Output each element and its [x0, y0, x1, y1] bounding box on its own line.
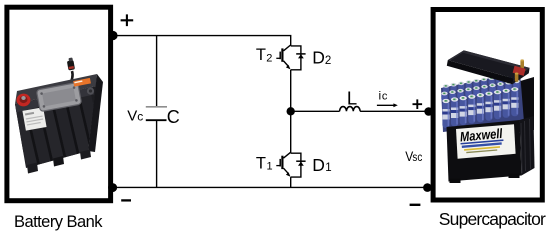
svg-text:sc: sc	[412, 152, 422, 164]
capacitor C top plate	[146, 106, 167, 108]
inductor L	[340, 107, 361, 112]
svg-text:D: D	[312, 155, 325, 175]
wire: top rail battery to T2 collector	[113, 36, 291, 46]
svg-text:c: c	[137, 109, 143, 123]
svg-text:1: 1	[325, 162, 331, 174]
svg-text:T: T	[256, 154, 266, 172]
battery - terminal label	[121, 199, 131, 201]
transistor T1	[276, 152, 290, 176]
battery bank frame	[7, 7, 111, 201]
junction mid node	[287, 107, 295, 115]
case	[447, 120, 522, 182]
battery + terminal label	[121, 14, 134, 26]
cell mass background	[441, 72, 524, 132]
svg-text:i: i	[379, 89, 382, 103]
svg-text:T: T	[256, 46, 266, 64]
Maxwell label	[456, 124, 516, 159]
lid	[448, 50, 530, 78]
red knob	[17, 94, 31, 107]
battery bank photo	[9, 57, 107, 173]
svg-text:1: 1	[267, 161, 273, 173]
svg-text:V: V	[127, 107, 137, 124]
wire: inductor to supercapacitor	[360, 110, 429, 112]
right side face	[88, 74, 103, 152]
capacitor C bottom plate	[146, 119, 167, 121]
wire: capacitor branch bottom	[156, 121, 158, 187]
supercapacitor photo	[441, 50, 535, 183]
svg-text:c: c	[382, 91, 388, 103]
junction battery positive node	[108, 31, 117, 40]
white sticker	[22, 107, 46, 130]
wire: capacitor branch top	[156, 36, 158, 106]
cable	[69, 71, 73, 86]
wire: T2 emitter to mid node	[290, 70, 292, 112]
wire: T1 emitter to bottom rail	[290, 177, 292, 187]
wire: mid node to inductor	[291, 110, 340, 112]
diode D1	[291, 153, 306, 177]
svg-text:Supercapacitor: Supercapacitor	[439, 209, 546, 229]
gray plate	[36, 82, 81, 111]
dark case corner behind cells (right)	[517, 77, 534, 132]
wire: mid node to T1 collector	[290, 111, 292, 153]
junction battery negative node	[108, 183, 117, 192]
transistor T2	[276, 45, 290, 69]
svg-text:Battery Bank: Battery Bank	[14, 213, 103, 231]
svg-text:L: L	[347, 87, 357, 108]
svg-text:C: C	[167, 107, 180, 127]
orange sticker	[73, 78, 91, 87]
diode D2	[291, 46, 306, 70]
svg-text:2: 2	[325, 55, 331, 67]
svg-text:D: D	[312, 48, 325, 68]
supercapacitor - terminal label	[410, 204, 421, 206]
supercapacitor + terminal label	[413, 99, 423, 109]
junction supercapacitor positive node	[424, 107, 433, 116]
feet	[27, 163, 38, 174]
current arrow ic	[377, 104, 395, 106]
dark terminal	[87, 87, 94, 94]
supercapacitor frame	[433, 10, 542, 201]
svg-text:2: 2	[266, 53, 272, 65]
junction supercapacitor negative node	[423, 183, 432, 192]
top face	[15, 74, 97, 104]
feet / base	[450, 179, 461, 184]
front face	[15, 86, 96, 168]
wire: bottom rail	[113, 186, 428, 188]
